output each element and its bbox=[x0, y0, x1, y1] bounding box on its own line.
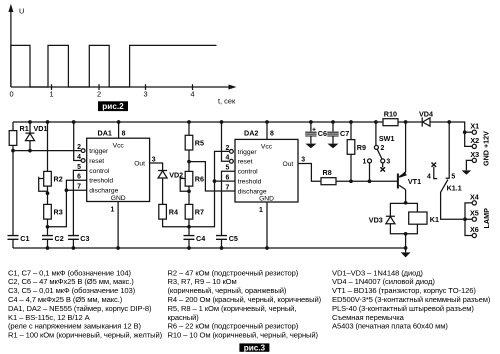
pin bubble DA2 pin4 bbox=[230, 159, 234, 163]
wire: VT1 emitter to rail bbox=[405, 122, 407, 172]
junction dots R8 line bbox=[349, 179, 353, 183]
wire: X1 stub bbox=[465, 131, 473, 133]
junction dots node A bbox=[11, 149, 15, 153]
svg-text:Съемная перемычка: Съемная перемычка bbox=[332, 313, 405, 322]
capacitor C6 (electrolytic) bbox=[305, 132, 316, 136]
svg-text:control: control bbox=[238, 169, 259, 176]
svg-text:C1, C7 – 0,1 мкФ (обозначение: C1, C7 – 0,1 мкФ (обозначение 104) bbox=[8, 268, 131, 277]
resistor R8 bbox=[321, 178, 336, 185]
svg-text:2: 2 bbox=[225, 145, 229, 152]
resistor R2 (trimmer) bbox=[44, 171, 52, 186]
wire: DA1 Vcc pin8 bbox=[118, 122, 120, 138]
svg-text:C2: C2 bbox=[55, 234, 64, 243]
junction dot R4/R7/C4 bbox=[187, 225, 191, 229]
connector X2 bbox=[472, 144, 476, 148]
capacitor C2 bbox=[42, 236, 53, 240]
svg-text:2: 2 bbox=[97, 90, 101, 99]
svg-text:R1: R1 bbox=[20, 124, 29, 133]
capacitor C5 bbox=[216, 236, 227, 240]
svg-text:VT1: VT1 bbox=[408, 177, 421, 186]
svg-text:6: 6 bbox=[225, 175, 229, 182]
svg-text:DA1, DA2 – NE555 (таймер, корп: DA1, DA2 – NE555 (таймер, корпус DIP-8) bbox=[8, 304, 152, 313]
svg-text:8: 8 bbox=[122, 130, 126, 137]
svg-text:discharge: discharge bbox=[238, 188, 267, 195]
relay K1 coil box bbox=[409, 212, 427, 224]
axis tick 2 bbox=[98, 84, 100, 90]
svg-text:C3, C5 – 0,01 мкФ (обозначение: C3, C5 – 0,01 мкФ (обозначение 103) bbox=[8, 286, 136, 295]
svg-text:Out: Out bbox=[283, 161, 294, 168]
svg-text:3: 3 bbox=[386, 159, 390, 166]
axis tick 4 bbox=[192, 84, 194, 90]
junction dot X1 branch bbox=[463, 130, 467, 134]
transistor VT1 base bar bbox=[397, 174, 399, 189]
wire: R5/R6 junction to DA2 discharge pin7 bbox=[189, 162, 235, 191]
pin bubble DA1 pin4 bbox=[81, 159, 85, 163]
jumper cross at K1.1 contact 4 bbox=[432, 163, 437, 167]
svg-text:5: 5 bbox=[77, 164, 81, 171]
svg-text:GND +12V: GND +12V bbox=[482, 131, 491, 166]
capacitor C4 bbox=[184, 236, 195, 240]
svg-text:2: 2 bbox=[77, 144, 81, 151]
diode VD4 bbox=[422, 117, 430, 126]
diode VD3 bbox=[386, 216, 395, 223]
resistor R5 bbox=[185, 135, 193, 150]
op-amp U1: timer DA1 box bbox=[87, 138, 150, 201]
junction dot R2 wiper bbox=[46, 191, 50, 195]
svg-text:рис.2: рис.2 bbox=[102, 102, 124, 111]
svg-text:VD2: VD2 bbox=[169, 170, 183, 179]
svg-text:Vcc: Vcc bbox=[113, 142, 125, 149]
svg-text:C1: C1 bbox=[20, 234, 29, 243]
svg-text:SW1: SW1 bbox=[379, 134, 395, 143]
svg-text:R10: R10 bbox=[384, 109, 397, 118]
connector X4 bbox=[472, 201, 476, 205]
resistor R4 bbox=[159, 204, 167, 219]
connector X6 bbox=[472, 233, 476, 237]
resistor R3 bbox=[44, 204, 52, 219]
ground at relay node bbox=[401, 252, 411, 257]
svg-text:PLS-40 (3-контактный штыревой: PLS-40 (3-контактный штыревой разъем) bbox=[332, 304, 474, 313]
svg-text:VD4 – 1N4007 (силовой диод): VD4 – 1N4007 (силовой диод) bbox=[332, 277, 435, 286]
svg-text:X1: X1 bbox=[470, 122, 479, 131]
svg-text:control: control bbox=[89, 168, 110, 175]
svg-text:2: 2 bbox=[381, 145, 385, 152]
ground under C6 bbox=[305, 144, 316, 149]
junction dot R3/C2/pins67 bbox=[46, 225, 50, 229]
svg-text:Out: Out bbox=[134, 160, 145, 167]
axis tick 1 bbox=[51, 84, 53, 90]
wire: DA1 reset pin4 to Vcc bbox=[74, 122, 82, 161]
waveform pulses bbox=[11, 45, 217, 87]
svg-text:R7: R7 bbox=[195, 208, 204, 217]
switch SW1 pin2 bbox=[374, 145, 378, 149]
wire: node A (R1-VD1-C1 to DA1 trigger pin2) bbox=[13, 150, 81, 152]
wire: DA2 out pin3 to R8 bbox=[298, 164, 321, 182]
connector X5 bbox=[472, 217, 476, 221]
wire: C7 branch bbox=[332, 122, 334, 144]
svg-text:treshold: treshold bbox=[89, 178, 113, 185]
svg-text:trigger: trigger bbox=[89, 148, 109, 155]
svg-text:R5: R5 bbox=[195, 139, 204, 148]
wire: SW1 common pin2 to rail bbox=[375, 122, 377, 145]
wire: DA2 control pin5 to C5 bbox=[222, 171, 236, 248]
junction dot VT1 collector node bbox=[404, 201, 408, 205]
svg-text:C4 – 4,7 мкФх25 В (Ø5 мм, макс: C4 – 4,7 мкФх25 В (Ø5 мм, макс.) bbox=[8, 295, 123, 304]
svg-text:5: 5 bbox=[451, 173, 455, 180]
svg-text:(реле с напряжением замыкания: (реле с напряжением замыкания 12 В) bbox=[8, 322, 141, 331]
svg-text:GND: GND bbox=[259, 195, 274, 202]
t axis arrowhead bbox=[229, 85, 237, 90]
U axis arrowhead bbox=[8, 4, 13, 12]
svg-text:reset: reset bbox=[238, 159, 253, 166]
svg-text:7: 7 bbox=[225, 184, 229, 191]
ground at X3 bbox=[462, 170, 472, 174]
figure label ris.3 bbox=[239, 343, 269, 352]
svg-text:ED500V-3*5 (3-контактный клемм: ED500V-3*5 (3-контактный клеммный разъем… bbox=[332, 295, 491, 304]
wire: R8 output to VT1 base bbox=[336, 180, 397, 182]
svg-text:treshold: treshold bbox=[238, 179, 262, 186]
svg-text:DA1: DA1 bbox=[98, 129, 112, 138]
junction dot X5 node bbox=[463, 217, 467, 221]
junction dot R5/R6 bbox=[187, 160, 191, 164]
svg-text:A5403 (печатная плата 60x40 мм: A5403 (печатная плата 60x40 мм) bbox=[332, 322, 448, 331]
wire: R5-R6-R7 column bbox=[188, 122, 190, 227]
svg-text:R3, R7, R9 – 10 кОм: R3, R7, R9 – 10 кОм bbox=[168, 277, 237, 286]
junction dots bottom rail bbox=[46, 246, 50, 250]
svg-text:VD3: VD3 bbox=[369, 216, 383, 225]
svg-text:t, сек: t, сек bbox=[218, 97, 236, 106]
wire: SW1 pin1 to R8 line bbox=[369, 163, 371, 181]
diode VD2 bbox=[158, 171, 167, 179]
t axis bbox=[11, 86, 231, 88]
wire: K1.1 contact 4 stub bbox=[434, 167, 437, 179]
wire: relay node to ground bbox=[405, 234, 407, 253]
wire: R9 branch bbox=[350, 122, 352, 181]
svg-text:trigger: trigger bbox=[238, 149, 258, 156]
wire: SW1 pin3 stub to jumper cross bbox=[382, 163, 384, 168]
wire: relay K1 / VD3 loop bbox=[390, 203, 417, 233]
svg-text:R5, R8 – 1 кОм (коричневый, че: R5, R8 – 1 кОм (коричневый, черный, bbox=[168, 304, 297, 313]
wire: DA2 GND pin1 bbox=[266, 202, 268, 248]
capacitor C6 plus mark bbox=[312, 128, 315, 131]
junction dot R6 wiper bbox=[187, 189, 191, 193]
svg-text:рис.3: рис.3 bbox=[244, 344, 266, 353]
wire: VD1 branch bbox=[29, 122, 31, 151]
resistor R7 bbox=[185, 204, 193, 219]
svg-text:VD4: VD4 bbox=[419, 109, 433, 118]
svg-text:reset: reset bbox=[89, 158, 104, 165]
svg-text:R9: R9 bbox=[357, 143, 366, 152]
transistor VT1 emitter/collector lines bbox=[399, 172, 405, 189]
wire: DA1 pins 6-7 tie to R3/C2 node bbox=[48, 180, 88, 227]
svg-text:R4 – 200 Ом (красный, черный,: R4 – 200 Ом (красный, черный, коричневый… bbox=[168, 295, 322, 304]
svg-text:8: 8 bbox=[270, 130, 274, 137]
svg-text:C6: C6 bbox=[318, 129, 327, 138]
wire: X4/X6 tie to X5 node bbox=[465, 203, 472, 236]
svg-text:VD1–VD3 – 1N4148 (диод): VD1–VD3 – 1N4148 (диод) bbox=[332, 268, 423, 277]
svg-text:C2, C6 – 47 мкФх25 В (Ø5 мм, м: C2, C6 – 47 мкФх25 В (Ø5 мм, макс.) bbox=[8, 277, 134, 286]
svg-text:1: 1 bbox=[259, 207, 263, 214]
svg-text:Vcc: Vcc bbox=[261, 143, 273, 150]
svg-text:R6 – 22 кОм (подстроечный рези: R6 – 22 кОм (подстроечный резистор) bbox=[168, 322, 299, 331]
svg-text:U: U bbox=[19, 7, 24, 16]
svg-text:X4: X4 bbox=[470, 192, 479, 201]
wire: R4/R7/C4 node to C4 and rail bbox=[188, 227, 190, 248]
svg-text:3: 3 bbox=[143, 90, 147, 99]
svg-text:(коричневый, черный, оранжевый: (коричневый, черный, оранжевый) bbox=[168, 286, 287, 295]
capacitor C7 bbox=[327, 132, 338, 136]
junction dot DA1 pin7 tie bbox=[65, 188, 69, 192]
jumper cross below SW1 pin3 bbox=[380, 167, 385, 171]
svg-text:R6: R6 bbox=[195, 175, 204, 184]
svg-text:1: 1 bbox=[111, 206, 115, 213]
svg-text:5: 5 bbox=[225, 165, 229, 172]
figure label ris.2 bbox=[98, 101, 128, 111]
wire: C6 branch bbox=[310, 122, 312, 144]
wire: R1/C1 left column bbox=[12, 122, 14, 248]
svg-text:1: 1 bbox=[49, 90, 53, 99]
wire: DA1 out pin3 to VD2/R4 bbox=[150, 163, 189, 227]
wire: DA1 GND pin1 bbox=[117, 202, 119, 249]
svg-text:R3: R3 bbox=[54, 208, 63, 217]
wire: K1.1 contact 5 from rail bbox=[446, 122, 450, 178]
svg-text:R4: R4 bbox=[169, 208, 178, 217]
svg-text:R1 – 100 кОм (коричневый, черн: R1 – 100 кОм (коричневый, черный, желтый… bbox=[8, 331, 163, 340]
junction dot relay bottom bbox=[404, 232, 408, 236]
svg-text:3: 3 bbox=[301, 156, 305, 163]
axis tick 3 bbox=[145, 84, 147, 90]
svg-text:R2: R2 bbox=[54, 175, 63, 184]
wire: +12V top rail bbox=[13, 122, 472, 146]
svg-text:LAMP: LAMP bbox=[482, 208, 491, 229]
svg-text:4: 4 bbox=[77, 154, 81, 161]
svg-text:4: 4 bbox=[427, 173, 431, 180]
svg-text:X2: X2 bbox=[470, 136, 479, 145]
resistor R9 bbox=[347, 140, 355, 155]
svg-text:4: 4 bbox=[225, 155, 229, 162]
svg-text:VT1 – BD136 (транзистор, корпу: VT1 – BD136 (транзистор, корпус TO-126) bbox=[332, 286, 476, 295]
pin bubble DA2 pin2 bbox=[230, 150, 234, 154]
svg-text:discharge: discharge bbox=[89, 188, 118, 195]
U axis (timing diagram) bbox=[10, 9, 12, 88]
svg-text:R2 – 47 кОм (подстроечный рези: R2 – 47 кОм (подстроечный резистор) bbox=[168, 268, 299, 277]
junction dot DA2 pin6 tie bbox=[213, 179, 217, 183]
wire: R2-R3-C2 column bbox=[47, 122, 49, 248]
wire: DA2 reset pin4 to Vcc bbox=[222, 122, 230, 161]
svg-text:3: 3 bbox=[152, 157, 156, 164]
svg-text:0: 0 bbox=[9, 90, 13, 99]
transistor VT1 emitter arrow bbox=[399, 172, 407, 178]
svg-text:GND: GND bbox=[111, 195, 126, 202]
wire: K1.1 lever bbox=[441, 180, 473, 220]
resistor R1 bbox=[9, 131, 17, 146]
capacitor C1 bbox=[8, 236, 19, 240]
svg-text:X6: X6 bbox=[470, 225, 479, 234]
svg-text:C7: C7 bbox=[340, 129, 349, 138]
connector X1 bbox=[472, 130, 476, 134]
ground under C7 bbox=[328, 144, 339, 149]
wire: R6 wiper tap bbox=[180, 177, 189, 191]
connector X3 bbox=[472, 158, 476, 162]
svg-text:X3: X3 bbox=[470, 150, 479, 159]
diode VD1 bbox=[26, 133, 35, 141]
wire: ground bottom rail bbox=[13, 247, 406, 249]
svg-text:X5: X5 bbox=[470, 209, 479, 218]
svg-text:C4: C4 bbox=[196, 234, 205, 243]
wire: DA2 trigger pin2 / treshold pin6 tie to C4 node bbox=[189, 151, 235, 226]
svg-text:K1 – BS-115c, 12 В/12 А: K1 – BS-115c, 12 В/12 А bbox=[8, 313, 91, 322]
switch SW1 lever bbox=[377, 149, 382, 159]
wire: X3 to ground bbox=[466, 160, 472, 170]
svg-text:7: 7 bbox=[77, 184, 81, 191]
svg-text:1: 1 bbox=[362, 159, 366, 166]
op-amp U2: timer DA2 box bbox=[235, 139, 298, 202]
svg-text:R10 – 10 Ом (коричневый, черны: R10 – 10 Ом (коричневый, черный, черный) bbox=[168, 331, 319, 340]
pin bubble DA1 pin2 bbox=[81, 149, 85, 153]
svg-text:4: 4 bbox=[190, 90, 194, 99]
svg-text:6: 6 bbox=[77, 174, 81, 181]
svg-text:DA2: DA2 bbox=[244, 129, 258, 138]
svg-text:VD1: VD1 bbox=[34, 124, 48, 133]
svg-text:K1.1: K1.1 bbox=[447, 184, 462, 193]
resistor R6 (trimmer) bbox=[185, 171, 193, 186]
svg-text:C5: C5 bbox=[229, 234, 238, 243]
capacitor C3 bbox=[68, 236, 79, 240]
wire: DA1 control pin5 to C3 bbox=[73, 170, 87, 248]
wire: R2 wiper tap bbox=[39, 177, 48, 191]
wire: DA2 Vcc pin8 bbox=[266, 122, 268, 139]
switch SW1 pin1 bbox=[368, 159, 372, 163]
svg-text:R8: R8 bbox=[323, 168, 332, 177]
wire: VT1 collector to relay node bbox=[405, 190, 407, 204]
svg-text:C3: C3 bbox=[80, 234, 89, 243]
switch SW1 pin3 bbox=[381, 159, 385, 163]
svg-text:K1: K1 bbox=[430, 215, 439, 224]
resistor R10 bbox=[383, 119, 398, 126]
junction dots top rail bbox=[28, 120, 32, 124]
svg-text:красный): красный) bbox=[168, 313, 200, 322]
